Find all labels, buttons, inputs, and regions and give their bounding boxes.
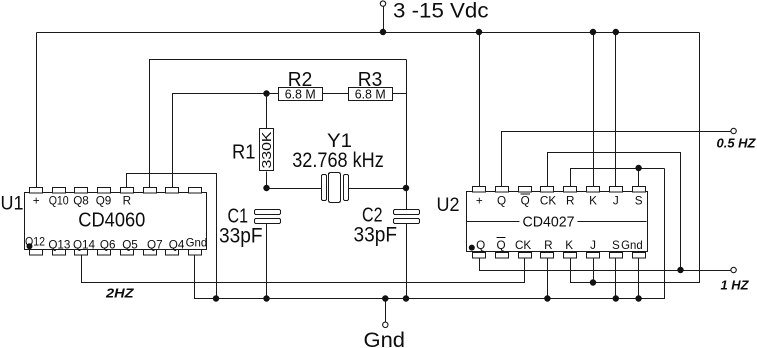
svg-text:K: K [589,195,597,208]
svg-text:2HZ: 2HZ [105,286,135,301]
svg-text:Q9: Q9 [96,195,112,208]
wire R3 right lead [393,93,407,95]
junction S2 / R2 tie line [635,165,641,171]
junction VDD rail / supply stub [380,29,386,35]
svg-text:Q10: Q10 [49,195,69,208]
wire 2HZ: U1 Q14 to U2 CK1 [82,256,525,283]
wire U1 R pin to ground rail [127,174,217,299]
junction U1 reset wire / ground rail [213,295,219,301]
resistor R3 body [349,88,393,101]
U2 bottom pin 9 [473,253,486,259]
svg-text:330K: 330K [259,131,274,168]
U1 top pin 1 [30,188,43,194]
capacitor C1 [255,210,281,224]
wire C1 bottom to ground rail [266,224,268,299]
U2 top pin 2 [496,187,509,193]
svg-text:R: R [544,239,552,252]
U1 bottom pin 14 [144,250,157,256]
svg-text:+: + [476,195,483,208]
U1 bottom pin 16 [189,250,202,256]
U2 top pin 5 [564,187,577,193]
wire 1HZ: U2 Q1 to output terminal [480,259,731,271]
svg-text:0.5 HZ: 0.5 HZ [717,136,757,150]
svg-text:Q: Q [476,239,485,252]
junction C2 / ground rail [403,295,409,301]
svg-text:CD4060: CD4060 [78,210,145,232]
svg-text:S: S [612,239,620,252]
svg-text:Q7: Q7 [147,238,163,251]
svg-text:32.768 kHz: 32.768 kHz [292,149,384,172]
svg-text:33pF: 33pF [354,223,398,246]
junction 1HZ / CK2 wire [677,267,683,273]
capacitor C2 [394,210,420,224]
wire VDD to U2 J2 [615,33,617,189]
junction J1 / K1-VDD line [590,279,596,285]
junction U2 Gnd / ground rail [635,295,641,301]
wire VDD rail [37,32,700,34]
U1 top pin 8 [189,188,202,194]
wire R1 top lead [266,94,268,129]
wire U2 Gnd pin to ground rail [638,259,640,299]
U2 top pin 3 [519,187,532,193]
U1 top pin 7 [166,188,179,194]
junction C1 / ground rail [263,295,269,301]
U1 bottom pin 12 [98,250,111,256]
svg-text:Q6: Q6 [100,238,116,251]
U2 top pin 6 [587,187,600,193]
U2 bottom pin 13 [564,253,577,259]
junction VDD rail / U2 + [476,29,482,35]
svg-text:CK: CK [515,239,531,252]
op-amp U1 CD4060 body [25,193,207,250]
wire U2 CK2 to 1HZ node [548,153,681,271]
svg-text:J: J [590,239,596,252]
op-amp U2 CD4027 body [467,192,648,252]
U1 top pin 2 [53,188,66,194]
U1 bottom pin 11 [75,250,88,256]
junction R1 top / R2 left [263,90,269,96]
svg-text:Gnd: Gnd [186,237,208,250]
wire C2 bottom to ground rail [406,224,408,299]
U2 top pin 1 [473,187,486,193]
svg-text:R1: R1 [232,142,256,164]
wire U2 R2 to ground tie line [571,169,665,187]
svg-text:Q4: Q4 [169,238,185,251]
U2 top pin 7 [610,187,623,193]
svg-text:R: R [566,195,574,208]
U2 bottom pin 15 [610,253,623,259]
terminal Gnd (open circle) [383,322,388,327]
terminal 0.5 HZ (open circle) [731,128,736,133]
U2 top pin 4 [541,187,554,193]
svg-text:33pF: 33pF [219,225,263,248]
svg-text:CK: CK [540,195,556,208]
wire VDD right drop to J1/K1 [571,33,700,283]
wire Gnd terminal stub [385,299,387,323]
U1 bottom pin 15 [166,250,179,256]
svg-text:Q13: Q13 [48,238,70,251]
wire VDD to U2 + pin [479,33,481,189]
U1 bottom pin 13 [121,250,134,256]
svg-text:R: R [123,195,131,208]
junction S1 / ground rail [613,295,619,301]
svg-text:+: + [33,195,40,208]
junction Gnd terminal / ground rail [382,295,388,301]
svg-text:6.8 M: 6.8 M [355,86,386,101]
wire U1 pin7 to R1/R2 node [173,94,267,190]
svg-text:U2: U2 [437,194,460,216]
svg-text:U1: U1 [1,193,24,215]
junction R1 / ground rail [544,295,550,301]
svg-text:Gnd: Gnd [364,328,406,348]
wire U2 S2 tap [638,169,640,187]
svg-text:Q8: Q8 [73,195,89,208]
U1 bottom pin 10 [53,250,66,256]
wire U1 pin6 to crystal-right node (top segment) [150,60,407,190]
svg-text:Gnd: Gnd [621,239,643,252]
svg-text:J: J [613,195,619,208]
wire ground rail (U1 Gnd to R2/S2 tie) [195,169,665,299]
wire supply terminal stub [383,7,385,33]
svg-text:Q5: Q5 [122,238,138,251]
svg-text:K: K [565,239,573,252]
wire VDD rail to U1 + pin [36,33,38,190]
svg-text:Q14: Q14 [73,238,96,251]
U1 bottom pin 9 [30,250,43,256]
svg-text:S: S [635,195,643,208]
wire R2 left lead [267,93,279,95]
wire crystal right lead [349,188,407,190]
U1 top pin 4 [98,188,111,194]
U1 top pin 6 [144,188,157,194]
resistor R1 body [260,129,274,171]
svg-text:6.8 M: 6.8 M [285,86,316,101]
wire 0.5HZ: U2 Q2 to output terminal [502,132,731,187]
U2 pin-1 marker dot [469,245,475,251]
wire crystal-right vertical (R3 right / Y1 right / C2 top) [406,60,408,211]
U2 top pin 8 [633,187,646,193]
resistor R2 body [279,88,323,101]
svg-text:Q: Q [497,195,506,208]
junction VDD rail / J2 [613,29,619,35]
U1 top pin 3 [75,188,88,194]
wire R1 bottom lead [266,172,268,189]
svg-text:1 HZ: 1 HZ [721,278,750,292]
U2 bottom pin 10 [496,253,509,259]
junction crystal right / C2 [403,185,409,191]
svg-text:Q: Q [521,195,530,208]
U1 top pin 5 [121,188,134,194]
U2 center divider line [467,221,647,223]
terminal 1 HZ (open circle) [731,267,736,272]
svg-text:CD4027: CD4027 [523,214,575,231]
svg-text:3 -15 Vdc: 3 -15 Vdc [393,0,489,23]
terminal 3-15 Vdc (open circle) [380,1,385,6]
U2 bottom pin 14 [587,253,600,259]
U2 bottom pin 16 [633,253,646,259]
junction VDD rail / K2 [590,29,596,35]
U2 bottom pin 11 [519,253,532,259]
svg-text:Q: Q [496,239,505,252]
U1 pin-1 marker dot [27,243,33,249]
wire crystal left lead [267,188,322,190]
wire R2-R3 link [323,93,349,95]
wire U2 J1 tap [593,259,595,283]
wire U2 R1 to ground rail [547,259,549,299]
wire U2 S1 to ground rail [615,259,617,299]
U2 bottom pin 12 [541,253,554,259]
junction crystal left / R1 / C1 [263,185,269,191]
crystal Y1 symbol [322,173,349,203]
wire VDD to U2 K2 [593,33,595,189]
